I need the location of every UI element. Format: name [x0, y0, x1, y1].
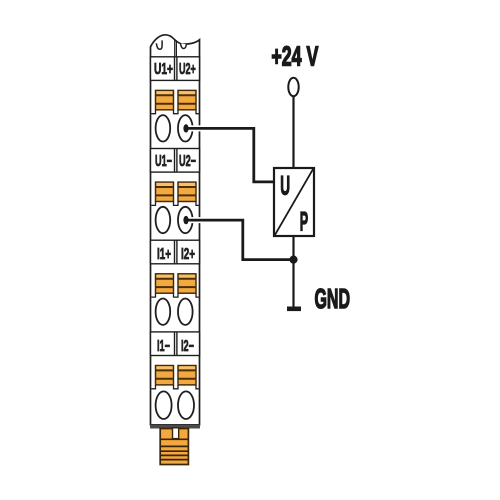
svg-text:U: U [280, 170, 290, 200]
junction dot node [289, 256, 297, 264]
hole row 2 right [178, 207, 193, 233]
clamp row 3 [151, 274, 198, 297]
wire from supply circle to converter [292, 96, 294, 168]
wire from converter output to ground [292, 236, 294, 307]
body bottom bar [150, 425, 200, 429]
terminal label I1- [157, 338, 170, 355]
svg-text:U1+: U1+ [154, 61, 173, 78]
clamp row 1 [151, 90, 198, 113]
mounting hole left top [156, 40, 162, 49]
svg-text:U2−: U2− [179, 153, 196, 170]
wire W1 from U2+ hole to converter input [186, 128, 274, 182]
terminal label U2+ [179, 61, 196, 78]
label row 4 box [151, 332, 200, 356]
svg-text:U1−: U1− [155, 153, 172, 170]
svg-text:I1−: I1− [157, 338, 170, 355]
label row 3 box [151, 240, 200, 264]
converter label U [280, 170, 290, 200]
terminal label I2- [181, 338, 194, 355]
svg-text:P: P [300, 206, 308, 236]
U/P converter box U1 [274, 168, 314, 236]
hole row 3 left [156, 299, 171, 325]
bottom plug foot [160, 428, 188, 465]
clamp row 4 [151, 366, 198, 389]
connection dot in U2+ hole [183, 124, 188, 132]
terminal label U1+ [154, 61, 173, 78]
svg-text:+24 V: +24 V [271, 41, 318, 72]
terminal label U2- [179, 153, 196, 170]
top divider wire [175, 40, 177, 57]
terminal label I2+ [181, 246, 195, 263]
ground symbol [287, 307, 301, 312]
svg-text:I1+: I1+ [157, 246, 171, 263]
supply terminal circle [288, 78, 298, 96]
clamp row 2 [151, 182, 198, 205]
label row 1 box [151, 57, 200, 81]
wire W2 from U2- hole to junction [186, 220, 294, 260]
converter label P [300, 206, 308, 236]
hole row 1 left [156, 115, 171, 141]
GND label [315, 283, 351, 314]
hole row 3 right [178, 299, 193, 325]
svg-text:I2−: I2− [181, 338, 194, 355]
hole row 4 left [156, 391, 172, 419]
svg-text:GND: GND [315, 283, 351, 314]
hole row 2 left [156, 207, 171, 233]
hole row 4 right [178, 391, 194, 419]
+24 V label [271, 41, 318, 72]
terminal block body outline [151, 35, 200, 425]
connection dot in U2- hole [183, 216, 188, 224]
terminal label I1+ [157, 246, 171, 263]
svg-text:I2+: I2+ [181, 246, 195, 263]
mounting hole right top [181, 43, 187, 48]
label row 2 box [151, 149, 200, 173]
svg-text:U2+: U2+ [179, 61, 196, 78]
terminal label U1- [155, 153, 172, 170]
hole row 1 right [178, 115, 193, 141]
